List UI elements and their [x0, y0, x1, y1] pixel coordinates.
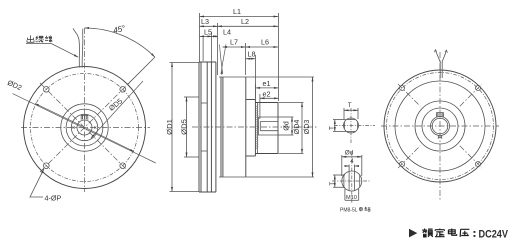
outer circle	[384, 70, 496, 182]
detail2 circle	[342, 171, 362, 191]
svg-text:M10: M10	[346, 195, 357, 201]
線	[36, 36, 44, 43]
Ød ext lines	[279, 116, 294, 118]
detail2 left dim T	[333, 174, 345, 176]
hub circle r25	[415, 101, 465, 151]
D2 arrows	[35, 103, 85, 127]
hub circle r17.5	[66, 109, 103, 146]
45 deg arc dimension	[85, 28, 155, 57]
svg-text:L5: L5	[204, 28, 212, 37]
ext line x217.5	[217, 23, 219, 75]
ØD3 ext lines	[219, 76, 314, 78]
L8 dimension	[246, 58, 256, 60]
detail2 flats	[343, 175, 345, 187]
hole bottom-left	[44, 163, 50, 169]
body top edge	[199, 61, 216, 63]
svg-text:ØD2: ØD2	[6, 78, 23, 92]
shaft top	[255, 102, 278, 104]
L7 dimension	[223, 46, 246, 48]
caption marker triangle	[409, 229, 417, 238]
ext line x254.5	[254, 55, 256, 99]
ØD4 dimension	[301, 103, 303, 154]
boss bottom edge	[246, 155, 256, 157]
caption colon	[474, 231, 476, 233]
bore slot left vertical	[259, 122, 261, 131]
svg-text:ØD5: ØD5	[107, 96, 124, 112]
outlet leader	[26, 44, 78, 58]
hole top-right	[476, 86, 481, 91]
outlet label 出線端 (drawn glyphs)	[27, 35, 52, 42]
svg-text:Ød: Ød	[282, 121, 291, 131]
lead wires left view	[73, 28, 79, 67]
svg-text:T: T	[329, 126, 336, 130]
boss top edge	[246, 99, 256, 101]
L6 dimension	[246, 46, 279, 48]
diagonal centerline SE segment	[460, 146, 482, 168]
body step line B	[210, 62, 212, 192]
svg-text:DC24V: DC24V	[479, 229, 509, 240]
ext line x199.5 up	[199, 13, 201, 62]
vertical centerline	[439, 52, 441, 200]
flange plate left face	[198, 62, 200, 192]
hole bottom-right	[476, 162, 481, 167]
ØD5 dimension (section)	[184, 96, 199, 98]
bore circle r9.5	[431, 117, 450, 136]
e2 dimension	[260, 97, 279, 99]
hub circle r24	[61, 104, 108, 151]
ext line x211.5	[211, 33, 213, 63]
e1 dimension	[255, 87, 278, 89]
detail1 centerlines	[334, 125, 375, 127]
svg-text:L8: L8	[248, 49, 256, 58]
Ød dimension	[291, 117, 293, 135]
额	[422, 229, 433, 237]
section lead wire at flange top	[202, 38, 204, 62]
housing circle r45	[395, 81, 485, 171]
body right face	[215, 62, 217, 192]
svg-text:ØD1: ØD1	[165, 119, 174, 135]
boss right face	[254, 100, 256, 157]
svg-text:L2: L2	[241, 17, 249, 26]
body step bottom	[201, 150, 207, 152]
hub tick right	[94, 126, 96, 128]
svg-text:PM8-5L: PM8-5L	[340, 208, 358, 214]
detail1 left dim T	[333, 119, 346, 121]
svg-text:ØD4: ØD4	[292, 120, 301, 135]
svg-text:Ød: Ød	[345, 150, 354, 157]
svg-text:L7: L7	[230, 38, 238, 47]
bore top line	[258, 116, 278, 118]
dim line D5 left view	[91, 81, 143, 138]
vertical centerline	[84, 28, 86, 192]
section lead wires	[220, 45, 223, 75]
rotor lining line	[222, 77, 224, 177]
svg-text:45°: 45°	[112, 23, 127, 35]
diagonal extension to 45 deg arc	[127, 57, 155, 85]
电	[448, 229, 456, 236]
body bottom edge	[199, 191, 216, 193]
bore circle r7.5	[77, 120, 92, 135]
svg-text:L1: L1	[233, 7, 241, 16]
hole top-right	[120, 87, 126, 93]
bore bottom notch	[438, 136, 441, 139]
detail1 flats	[343, 122, 345, 129]
hole top-left	[400, 86, 405, 91]
detail2 slot lines	[348, 172, 350, 191]
detail1 circle	[344, 118, 359, 133]
出	[27, 35, 34, 42]
svg-text:T: T	[329, 182, 336, 186]
rotor left face	[220, 77, 222, 177]
svg-text:L6: L6	[261, 38, 269, 47]
keyway	[81, 115, 88, 120]
shaft chamfer line	[257, 103, 259, 154]
4 dim	[348, 165, 350, 173]
svg-text:ØD5: ØD5	[180, 119, 189, 135]
detail1 top dim T	[343, 108, 345, 119]
hole bottom-right	[120, 163, 126, 169]
boss cut hatching	[256, 105, 259, 150]
flange plate right face	[200, 62, 202, 192]
svg-text:L3: L3	[201, 17, 209, 26]
diagonal centerline SW-NE	[40, 84, 128, 172]
ØD3 dimension	[312, 77, 314, 177]
shaft bottom	[255, 153, 278, 155]
outer circle	[24, 67, 146, 189]
keyway screw marks	[83, 116, 87, 120]
hub tick left	[73, 126, 75, 128]
e1 ext lines	[254, 84, 256, 101]
bolt circle (dashed)	[31, 74, 139, 182]
caption 额定电压 (drawn glyphs)	[422, 229, 469, 237]
bore left vertical	[257, 117, 259, 135]
ext line x245.5	[245, 43, 247, 75]
svg-text:4-ØP: 4-ØP	[45, 194, 62, 203]
ØD4 ext lines	[279, 102, 304, 104]
L4 dimension	[212, 35, 218, 37]
4-ØP leader	[30, 169, 44, 197]
svg-text:L4: L4	[223, 28, 231, 37]
bore inner circle	[432, 118, 448, 134]
bore bottom line	[258, 134, 278, 136]
bore slot top	[260, 121, 278, 123]
section centerline	[192, 126, 317, 128]
horizontal centerline	[21, 127, 150, 129]
svg-text:4: 4	[350, 159, 354, 165]
svg-text:T: T	[348, 102, 352, 109]
压	[460, 229, 469, 237]
svg-text:ØD3: ØD3	[302, 120, 311, 135]
keyway right view	[437, 113, 444, 117]
M10 stem	[344, 189, 346, 200]
lead wires right view	[439, 62, 441, 78]
bolt circle dashed	[387, 73, 494, 180]
hole top-left	[44, 87, 50, 93]
L2 dimension	[218, 25, 279, 27]
diagonal centerline SW segment	[398, 146, 420, 168]
shaft end face	[277, 103, 279, 154]
ØD1 dimension	[170, 62, 200, 64]
horizontal centerline	[381, 125, 499, 127]
svg-text:e1: e1	[263, 79, 271, 88]
端	[45, 35, 52, 42]
hub circle r18	[422, 108, 458, 144]
ext line x278.5	[278, 13, 280, 101]
svg-text:e2: e2	[263, 89, 271, 98]
diagonal centerline NW segment	[398, 84, 420, 106]
detail2 centerlines	[332, 180, 371, 182]
keyway screw marks right view	[438, 113, 442, 117]
L5 dimension	[200, 35, 213, 37]
body step top	[201, 102, 207, 104]
body step line A	[206, 62, 208, 192]
定	[435, 229, 445, 237]
hole bottom-left	[400, 162, 405, 167]
diagonal centerline NE segment	[460, 84, 482, 106]
bore slot bottom	[260, 130, 278, 132]
L1 dimension	[200, 16, 279, 18]
hub circle r11.5	[71, 114, 97, 140]
rotor right face	[245, 77, 247, 177]
dim line D2	[13, 94, 156, 163]
Ød dim line	[342, 156, 362, 158]
L3 dimension	[200, 25, 218, 27]
diagonal centerline NW-SE	[40, 83, 129, 172]
